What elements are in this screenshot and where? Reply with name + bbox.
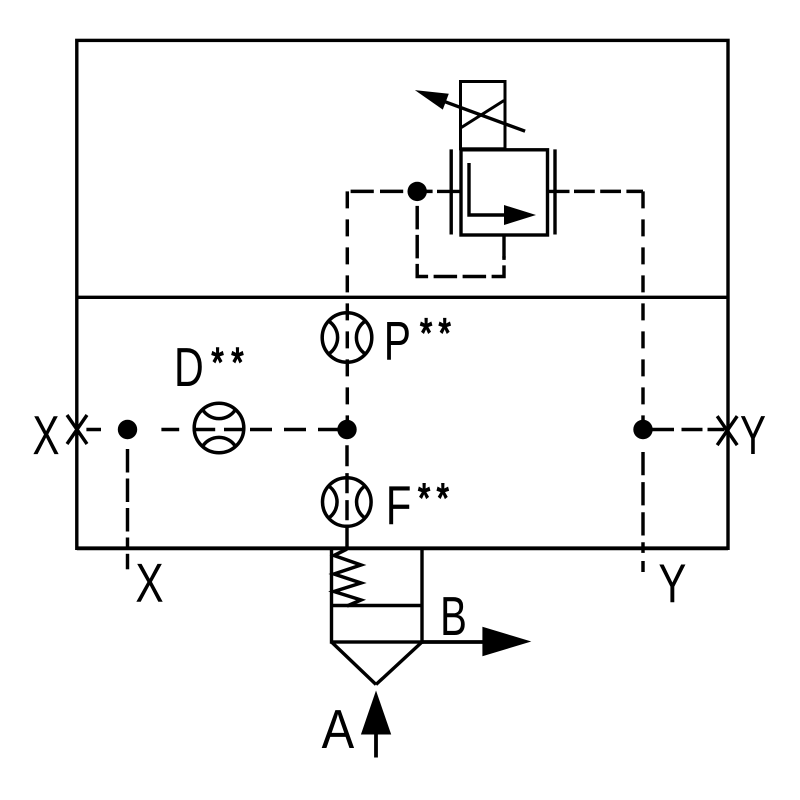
- label P: [387, 322, 409, 360]
- asterisks for D: [212, 348, 223, 362]
- adjuster diagonal stroke: [461, 101, 505, 129]
- pilot valve right side bar: [553, 149, 556, 234]
- pilot drain loop dashed: [417, 191, 504, 276]
- main cartridge valve rectangle: [332, 548, 423, 642]
- pilot line: left vertical dashed down to main node: [346, 191, 349, 429]
- port B arrow head: [482, 627, 531, 657]
- orifice P body: [322, 313, 372, 363]
- pilot valve right port stub: [548, 190, 570, 193]
- orifice F right arc: [357, 486, 365, 518]
- junction dot pilot node: [408, 182, 427, 201]
- junction dot right: [633, 420, 652, 439]
- port A arrow stem: [374, 735, 378, 758]
- cartridge inner line: [332, 604, 423, 607]
- left X branch end dash below block: [126, 554, 129, 570]
- center solid stub to spring: [345, 526, 348, 549]
- adjustment element (spring adjuster) box: [461, 82, 506, 149]
- housing divider line: [77, 296, 728, 299]
- port Y plug cross: [717, 416, 737, 445]
- pilot valve left side bar: [450, 149, 453, 234]
- main housing block: [77, 40, 728, 548]
- cartridge poppet cone: [332, 642, 423, 685]
- asterisks for F: [419, 484, 430, 498]
- junction dot left: [118, 420, 137, 439]
- orifice P left arc: [329, 321, 338, 354]
- orifice F body: [323, 478, 372, 527]
- pilot relief valve U1 body: [461, 150, 548, 235]
- orifice P right arc: [356, 321, 365, 354]
- port B line: [422, 640, 484, 644]
- label Y (right port): [741, 416, 765, 454]
- orifice D body: [194, 403, 244, 453]
- junction dot center: [337, 420, 356, 439]
- left X branch vertical dashed: [126, 449, 129, 548]
- label A: [322, 710, 354, 748]
- adjustment arrow head: [415, 90, 449, 110]
- label X (bottom): [136, 564, 162, 602]
- orifice F left arc: [329, 486, 337, 518]
- Y port dashed stub (right node to Y plug): [652, 428, 725, 431]
- adjustment arrow shaft: [444, 101, 526, 131]
- cartridge spring: [334, 549, 361, 606]
- right branch dash crossing block bottom: [641, 548, 644, 553]
- pilot line: right vertical dashed down to Y: [641, 191, 644, 429]
- asterisks for P: [421, 319, 432, 333]
- port X plug cross: [67, 415, 87, 444]
- pilot line: left horizontal dashed (node to pilot P port): [351, 190, 437, 193]
- orifice D lower arc: [203, 437, 236, 446]
- pilot drain solid stub: [502, 235, 505, 258]
- label D: [177, 348, 201, 386]
- label Y (bottom): [659, 564, 685, 602]
- main X control dashed line (X port to center node): [86, 428, 339, 431]
- housing bottom edge emphasis: [77, 546, 728, 550]
- orifice D upper arc: [203, 410, 236, 419]
- label X (left port): [33, 416, 58, 454]
- label F: [389, 486, 409, 524]
- right branch end dash below block: [641, 561, 644, 572]
- pilot valve left port stub: [437, 190, 461, 193]
- center vertical dashed to F orifice: [345, 445, 348, 520]
- pilot line: right vertical below node: [641, 452, 644, 548]
- port A arrow head: [361, 691, 391, 735]
- pilot valve internal flow arrow: [469, 163, 506, 215]
- pilot line: right horizontal dashed: [574, 190, 643, 193]
- label B: [443, 597, 464, 635]
